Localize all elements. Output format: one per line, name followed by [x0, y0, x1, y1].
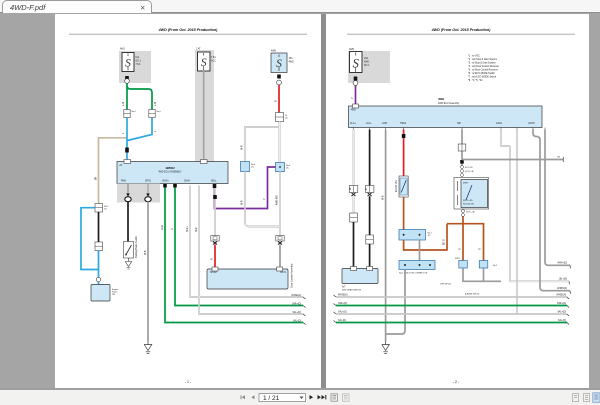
svg-text:4WD (From Oct. 2015 Production: 4WD (From Oct. 2015 Production) — [158, 28, 219, 32]
svg-text:W4SE(A): W4SE(A) — [556, 294, 566, 297]
svg-text:GLG-: GLG- — [366, 123, 372, 125]
svg-text:4GT1 +4E: 4GT1 +4E — [466, 212, 475, 214]
svg-text:16L+(D): 16L+(D) — [559, 279, 568, 281]
svg-text:BE-O: BE-O — [444, 239, 446, 245]
svg-text:No.5: No.5 — [132, 111, 137, 113]
svg-text:*4 : w/o Door Control Receiver: *4 : w/o Door Control Receiver — [468, 65, 499, 68]
svg-text:4WD (From Oct. 2015 Production: 4WD (From Oct. 2015 Production) — [431, 28, 492, 32]
svg-text:S4L-(D): S4L-(D) — [293, 321, 301, 323]
svg-text:J/B: J/B — [557, 157, 561, 159]
svg-text:PHB: PHB — [121, 181, 126, 183]
svg-text:NO.1: NO.1 — [364, 65, 370, 67]
svg-text:RDO3 +RD: RDO3 +RD — [463, 200, 473, 202]
svg-text:7.5A: 7.5A — [211, 56, 216, 59]
svg-text:S4R+(D): S4R+(D) — [338, 303, 347, 305]
svg-text:CANH: CANH — [528, 122, 535, 125]
svg-text:GND: GND — [382, 123, 387, 125]
svg-text:S4L-(D): S4L-(D) — [558, 320, 566, 322]
svg-text:S/B: S/B — [457, 123, 461, 125]
svg-text:RDO3(S+W): RDO3(S+W) — [463, 204, 474, 206]
svg-text:J/C: J/C — [104, 209, 108, 211]
svg-text:W4SE(A): W4SE(A) — [291, 294, 301, 297]
svg-text:4WD02: 4WD02 — [165, 166, 175, 170]
svg-text:R: R — [212, 258, 214, 260]
svg-text:+B: +B — [119, 165, 122, 167]
svg-text:No.2: No.2 — [493, 265, 497, 267]
svg-text:4WD: 4WD — [289, 62, 294, 64]
svg-text:4GT1 +4E: 4GT1 +4E — [465, 171, 474, 173]
svg-text:No.5: No.5 — [157, 111, 162, 113]
svg-text:J/C: J/C — [286, 168, 290, 170]
svg-text:L-W: L-W — [123, 101, 125, 106]
svg-text:*1 : w/ VSC: *1 : w/ VSC — [468, 56, 480, 58]
svg-text:4WD ECU ASSEMBLY: 4WD ECU ASSEMBLY — [158, 171, 182, 174]
svg-text:AM1: AM1 — [120, 48, 125, 51]
svg-text:HSD2: HSD2 — [400, 123, 407, 125]
svg-text:W-B: W-B — [145, 250, 147, 255]
svg-text:BAT1: BAT1 — [280, 271, 286, 274]
svg-text:W-B: W-B — [383, 195, 385, 200]
svg-text:O: O — [480, 248, 482, 250]
svg-text:4WD: 4WD — [351, 110, 356, 112]
svg-text:ACC: ACC — [211, 60, 216, 63]
svg-text:Gear Counter Assembly: Gear Counter Assembly — [291, 263, 294, 288]
svg-text:*2 : w/o Stop & Start System: *2 : w/o Stop & Start System — [468, 58, 497, 61]
svg-text:J/C: J/C — [285, 118, 289, 120]
svg-text:CHW+: CHW+ — [162, 181, 169, 183]
svg-text:SLR+: SLR+ — [187, 226, 189, 232]
svg-text:Parking Brake Switch: Parking Brake Switch — [135, 235, 138, 258]
svg-text:S4L+(D): S4L+(D) — [557, 312, 566, 314]
svg-text:- 1 -: - 1 - — [185, 380, 192, 384]
svg-text:W4N+(D): W4N+(D) — [557, 263, 567, 265]
svg-text:4WD-IND: 4WD-IND — [277, 195, 279, 205]
svg-text:V: V — [264, 198, 266, 200]
svg-text:R: R — [276, 100, 278, 102]
svg-text:ECU-B 15A: ECU-B 15A — [395, 180, 398, 192]
svg-text:SPDL: SPDL — [455, 258, 460, 260]
svg-text:1 / 21: 1 / 21 — [263, 395, 280, 402]
svg-text:S4R+(D): S4R+(D) — [557, 303, 566, 305]
svg-text:*6 : w/ ECO MODE Switch: *6 : w/ ECO MODE Switch — [468, 72, 496, 75]
svg-text:4WD: 4WD — [271, 51, 276, 53]
svg-text:SPDM: SPDM — [210, 272, 217, 274]
svg-text:15A: 15A — [289, 57, 294, 60]
svg-text:W4SE(A): W4SE(A) — [338, 294, 348, 297]
svg-text:A/T: A/T — [342, 286, 346, 289]
svg-text:7.5A: 7.5A — [136, 63, 141, 66]
svg-text:4WD: 4WD — [438, 97, 444, 101]
svg-text:CFB SIF (V): CFB SIF (V) — [440, 284, 451, 286]
svg-text:1 AT: 1 AT — [196, 48, 201, 51]
svg-text:S4L+(D): S4L+(D) — [338, 312, 347, 314]
svg-text:No.2 JUNCTION CONNECTOR: No.2 JUNCTION CONNECTOR — [399, 273, 428, 275]
svg-text:4WD: 4WD — [349, 49, 354, 51]
svg-text:O: O — [460, 248, 462, 250]
svg-text:SLR-: SLR- — [196, 227, 198, 232]
svg-text:4WD: 4WD — [364, 62, 369, 64]
svg-text:MSRT: MSRT — [463, 183, 469, 185]
svg-text:L: L — [155, 130, 157, 132]
svg-text:G-W: G-W — [162, 224, 164, 230]
svg-text:CLG+: CLG+ — [350, 123, 357, 125]
svg-text:*7 : w/o ECO MODE Switch: *7 : w/o ECO MODE Switch — [468, 76, 497, 79]
svg-text:CHW-: CHW- — [184, 181, 190, 183]
svg-text:- 2 -: - 2 - — [453, 380, 460, 384]
svg-text:W4RN(K): W4RN(K) — [557, 288, 567, 290]
svg-text:15A: 15A — [364, 57, 369, 60]
svg-text:NO.1: NO.1 — [136, 61, 142, 63]
svg-text:4WD ECU Assembly: 4WD ECU Assembly — [438, 102, 460, 105]
svg-text:V: V — [352, 97, 354, 99]
svg-text:J/C: J/C — [428, 235, 432, 237]
svg-text:BR: BR — [96, 176, 98, 180]
svg-text:A-BRKE SIF (V): A-BRKE SIF (V) — [465, 293, 480, 296]
svg-text:J/C: J/C — [251, 167, 255, 169]
svg-text:*3 : w/ Stop & Start System: *3 : w/ Stop & Start System — [468, 62, 496, 65]
svg-text:*8 : *2, *5, *44: *8 : *2, *5, *44 — [468, 80, 483, 82]
svg-text:L-W: L-W — [155, 101, 157, 106]
svg-text:S4L+(D): S4L+(D) — [292, 312, 301, 314]
svg-text:S4L-(D): S4L-(D) — [338, 320, 346, 322]
svg-text:S: S — [353, 57, 360, 71]
svg-text:SPD1: SPD1 — [145, 181, 152, 183]
svg-text:L: L — [123, 132, 125, 134]
svg-text:W-R: W-R — [242, 200, 244, 205]
svg-text:4WD GEAR SWITCH: 4WD GEAR SWITCH — [342, 289, 362, 292]
svg-text:S4R+(D): S4R+(D) — [292, 304, 301, 306]
svg-text:SELL: SELL — [211, 181, 217, 183]
svg-text:CANL: CANL — [496, 122, 503, 125]
svg-text:G: G — [172, 228, 174, 230]
svg-text:*5 : w/ Door Control Receiver: *5 : w/ Door Control Receiver — [468, 69, 498, 72]
svg-text:W-R: W-R — [242, 145, 244, 150]
svg-text:4GT +4D: 4GT +4D — [465, 167, 473, 169]
svg-text:J/B: J/B — [112, 294, 116, 296]
